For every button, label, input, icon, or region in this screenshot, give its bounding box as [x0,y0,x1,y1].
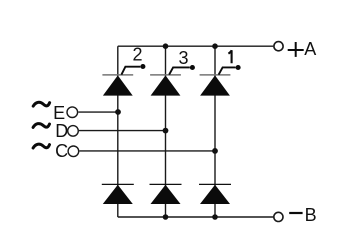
svg-text:D: D [55,121,68,141]
svg-text:2: 2 [133,45,143,65]
svg-text:E: E [53,103,65,123]
svg-text:B: B [305,205,317,225]
svg-text:3: 3 [179,48,189,68]
svg-text:A: A [304,39,316,59]
svg-text:C: C [55,141,68,161]
